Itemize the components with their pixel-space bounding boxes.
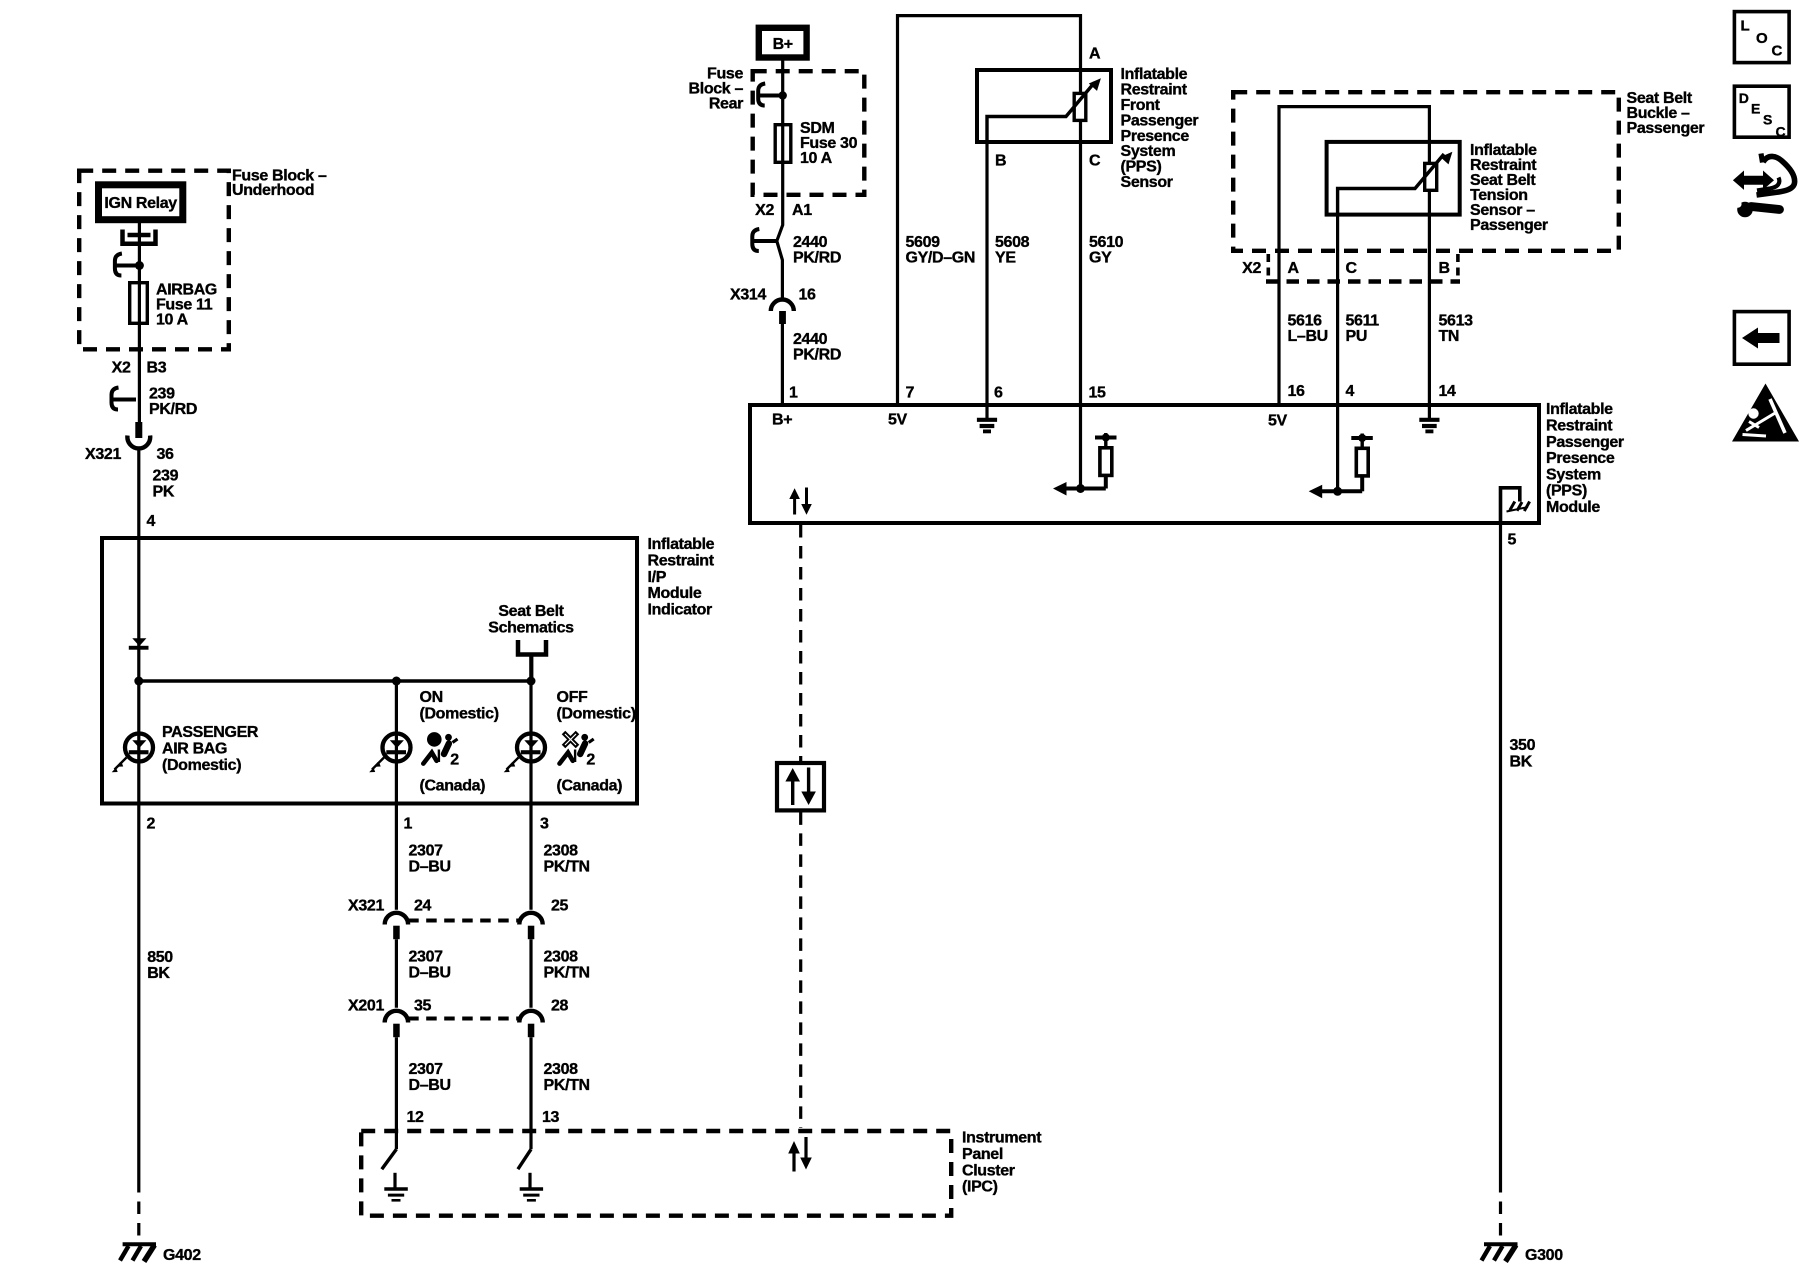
wire 2307 D-BU from pin 1 xyxy=(395,805,398,910)
svg-text:2440: 2440 xyxy=(793,331,828,348)
label (Canada) under OFF xyxy=(557,777,623,794)
terminal hook at X2 B3 xyxy=(112,388,137,410)
switch to ground (pin 12) xyxy=(382,1149,397,1169)
svg-text:C: C xyxy=(1089,152,1101,169)
label Fuse Block - Underhood xyxy=(232,168,327,200)
svg-text:Seat Belt: Seat Belt xyxy=(498,603,564,620)
label Instrument Panel Cluster (IPC) xyxy=(962,1130,1042,1196)
fuse F11 AIRBAG Fuse 11 10 A xyxy=(130,282,217,329)
troubleshooting icon (arrows and wrench) xyxy=(1733,154,1795,218)
diode on lamp feed xyxy=(129,638,149,649)
labels X314 16 xyxy=(730,287,816,304)
svg-text:PK/RD: PK/RD xyxy=(793,347,841,364)
PPS sensor wiper arm xyxy=(987,78,1101,143)
label A xyxy=(1089,46,1101,63)
svg-text:Passenger: Passenger xyxy=(1627,120,1705,137)
connector X201 pin 35 symbol xyxy=(385,1011,408,1037)
svg-text:2308: 2308 xyxy=(544,1061,579,1078)
svg-text:IGN Relay: IGN Relay xyxy=(104,195,177,212)
label Inflatable Restraint Passenger Presence System (PPS) Module xyxy=(1546,401,1624,516)
variable resistor in tension sensor xyxy=(1425,163,1437,190)
connector X314 pin 16 symbol xyxy=(771,300,794,325)
svg-text:6: 6 xyxy=(994,385,1003,402)
ground inside IPC (left) xyxy=(384,1173,408,1201)
svg-text:Indicator: Indicator xyxy=(648,601,713,618)
wire B through tension sensor (5613) xyxy=(1428,142,1431,405)
svg-text:28: 28 xyxy=(551,998,569,1015)
svg-text:PK/TN: PK/TN xyxy=(544,965,590,982)
module pin labels 7 6 15 xyxy=(906,385,1107,402)
label Fuse Block - Rear xyxy=(689,66,744,113)
connector X321 pin 36 labels xyxy=(85,446,174,463)
back arrow box xyxy=(1734,312,1789,365)
svg-text:2: 2 xyxy=(147,816,156,833)
wire 350 BK to G300 xyxy=(1499,523,1502,1243)
svg-text:(IPC): (IPC) xyxy=(962,1179,998,1196)
switch to ground (pin 13) xyxy=(518,1149,531,1169)
svg-text:14: 14 xyxy=(1439,383,1457,400)
svg-text:5611: 5611 xyxy=(1346,313,1380,330)
wire 239 PK label xyxy=(153,468,179,501)
svg-text:Panel: Panel xyxy=(962,1146,1003,1163)
svg-text:L: L xyxy=(1741,17,1750,34)
svg-text:X321: X321 xyxy=(85,446,121,463)
ground symbol at pin 6 xyxy=(977,405,997,431)
pin 4 sense resistor to 5V xyxy=(1309,405,1373,498)
svg-text:5609: 5609 xyxy=(906,234,941,251)
svg-text:B+: B+ xyxy=(772,412,792,429)
svg-text:D–BU: D–BU xyxy=(409,965,451,982)
svg-text:13: 13 xyxy=(542,1109,560,1126)
svg-text:G300: G300 xyxy=(1525,1247,1563,1264)
svg-text:2: 2 xyxy=(450,752,459,769)
module internal labels B+ 5V 5V xyxy=(772,412,1288,430)
connector X321 pin 24 symbol xyxy=(385,913,408,939)
ground inside IPC (right) xyxy=(520,1173,543,1201)
svg-text:5: 5 xyxy=(1508,532,1517,549)
serial data dashed wire to IPC xyxy=(799,812,802,1128)
label 850 BK xyxy=(147,949,173,982)
labels B C xyxy=(995,152,1101,169)
svg-text:YE: YE xyxy=(995,250,1016,267)
svg-text:PK: PK xyxy=(153,484,175,501)
label (Canada) under ON xyxy=(420,777,486,794)
svg-text:BK: BK xyxy=(1510,754,1533,771)
wire C through PPS sensor (5610) xyxy=(1079,70,1082,405)
svg-text:BK: BK xyxy=(147,965,170,982)
svg-text:25: 25 xyxy=(551,898,569,915)
B+ feed box xyxy=(759,28,807,58)
wire 850 BK to G402 xyxy=(137,805,140,1243)
svg-text:A: A xyxy=(1288,260,1300,277)
svg-text:(Domestic): (Domestic) xyxy=(162,757,241,774)
svg-text:2307: 2307 xyxy=(409,1061,444,1078)
wire 2308 PK/TN lower segment xyxy=(529,1037,532,1149)
svg-text:4: 4 xyxy=(1346,383,1355,400)
fuse F30 SDM Fuse 30 10 A xyxy=(775,120,857,167)
svg-text:5613: 5613 xyxy=(1439,313,1474,330)
svg-text:B+: B+ xyxy=(773,36,793,53)
svg-text:5610: 5610 xyxy=(1089,234,1124,251)
svg-text:C: C xyxy=(1772,43,1783,60)
svg-text:X2: X2 xyxy=(755,202,774,219)
terminal hook at X2 A1 xyxy=(752,229,777,251)
svg-text:850: 850 xyxy=(147,949,173,966)
tension sensor loop wire A (5616) xyxy=(1279,107,1429,405)
svg-text:7: 7 xyxy=(906,385,915,402)
dashed harness tie X321 xyxy=(408,919,519,923)
label 2440 PK/RD (upper) xyxy=(793,234,841,267)
svg-text:5608: 5608 xyxy=(995,234,1030,251)
svg-text:C: C xyxy=(1776,124,1786,140)
svg-text:24: 24 xyxy=(414,898,432,915)
svg-text:TN: TN xyxy=(1439,328,1460,345)
DESC reference box xyxy=(1734,86,1789,139)
svg-text:239: 239 xyxy=(153,468,179,485)
label 2308 PK/TN (middle) xyxy=(544,949,590,982)
svg-text:5616: 5616 xyxy=(1288,313,1323,330)
svg-text:2307: 2307 xyxy=(409,949,444,966)
svg-text:350: 350 xyxy=(1510,737,1536,754)
serial data arrows inside IPC xyxy=(788,1137,812,1172)
seat belt buckle dashed box xyxy=(1233,92,1619,251)
svg-text:16: 16 xyxy=(1288,383,1306,400)
svg-text:X201: X201 xyxy=(348,998,384,1015)
svg-text:12: 12 xyxy=(407,1109,425,1126)
svg-text:A: A xyxy=(1089,46,1101,63)
pin labels 2 1 3 xyxy=(147,816,550,833)
svg-text:1: 1 xyxy=(789,385,798,402)
svg-text:X2: X2 xyxy=(1242,260,1261,277)
svg-text:(Canada): (Canada) xyxy=(420,777,486,794)
ground symbol at pin 14 xyxy=(1419,405,1439,431)
label 2307 D-BU (middle) xyxy=(409,949,451,982)
svg-text:S: S xyxy=(1763,112,1772,128)
wire into I/P module xyxy=(137,449,140,682)
svg-text:X2: X2 xyxy=(112,360,131,377)
instrument panel cluster dashed box xyxy=(361,1131,951,1216)
svg-text:Underhood: Underhood xyxy=(232,182,314,199)
svg-text:Passenger: Passenger xyxy=(1546,434,1624,451)
svg-text:2440: 2440 xyxy=(793,234,828,251)
svg-text:2308: 2308 xyxy=(544,843,579,860)
label Seat Belt Schematics xyxy=(488,603,574,637)
svg-text:PU: PU xyxy=(1346,328,1368,345)
svg-text:3: 3 xyxy=(540,816,549,833)
module pin labels 16 4 14 xyxy=(1288,383,1457,400)
bus wire inside module xyxy=(139,679,531,683)
wire 2308 PK/TN middle segment xyxy=(529,939,532,1008)
svg-text:Restraint: Restraint xyxy=(1546,418,1613,435)
label Inflatable Restraint Front Passenger Presence System (PPS) Sensor xyxy=(1121,66,1199,191)
svg-text:B3: B3 xyxy=(147,360,167,377)
sensor loop wire A (5609) xyxy=(898,16,1081,405)
svg-text:Module: Module xyxy=(1546,499,1600,516)
serial data dashed wire from module xyxy=(799,525,802,761)
svg-text:GY: GY xyxy=(1089,250,1112,267)
serial data interface box xyxy=(777,763,824,810)
svg-text:239: 239 xyxy=(149,386,175,403)
labels X2 A C B xyxy=(1242,260,1450,277)
label 2308 PK/TN (lower) xyxy=(544,1061,590,1094)
svg-text:C: C xyxy=(1346,260,1358,277)
svg-text:ON: ON xyxy=(420,689,443,706)
svg-text:(Canada): (Canada) xyxy=(557,777,623,794)
svg-text:Rear: Rear xyxy=(709,96,743,113)
labels X201 35 28 xyxy=(348,998,569,1015)
svg-text:Schematics: Schematics xyxy=(488,620,574,637)
pin 15 sense resistor to 5V xyxy=(1053,405,1117,496)
airbag warning triangle xyxy=(1732,384,1799,442)
svg-text:(PPS): (PPS) xyxy=(1546,483,1587,500)
wire labels 5616 L-BU 5611 PU 5613 TN xyxy=(1288,313,1474,346)
svg-text:5V: 5V xyxy=(888,412,908,429)
svg-text:PK/TN: PK/TN xyxy=(544,859,590,876)
svg-text:(Domestic): (Domestic) xyxy=(420,705,499,722)
variable resistor in PPS sensor xyxy=(1074,93,1086,120)
label 350 BK xyxy=(1510,737,1536,771)
svg-text:G402: G402 xyxy=(163,1247,201,1264)
svg-text:O: O xyxy=(1756,30,1768,47)
svg-text:B: B xyxy=(1439,260,1450,277)
svg-text:Restraint: Restraint xyxy=(648,553,715,570)
lamp PASSENGER AIR BAG indicator xyxy=(112,681,153,805)
ground G300 xyxy=(1482,1244,1564,1264)
label Inflatable Restraint Seat Belt Tension Sensor - Passenger xyxy=(1470,142,1548,234)
LOC reference box xyxy=(1734,12,1789,63)
svg-text:PK/RD: PK/RD xyxy=(149,401,197,418)
junction node dots on bus xyxy=(134,677,535,686)
connector X321 pin 25 symbol xyxy=(519,913,542,939)
label Inflatable Restraint I/P Module Indicator xyxy=(648,536,715,618)
fuse block rear dashed box xyxy=(753,71,865,195)
svg-text:Presence: Presence xyxy=(1546,450,1615,467)
svg-text:10 A: 10 A xyxy=(156,312,189,329)
lamp OFF indicator xyxy=(504,681,545,805)
wire labels 5609 GY/D-GN 5608 YE 5610 GY xyxy=(906,234,1124,267)
svg-text:System: System xyxy=(1546,466,1601,483)
connector X2 pin A1 labels xyxy=(755,202,812,219)
svg-text:1: 1 xyxy=(404,816,413,833)
svg-text:B: B xyxy=(995,152,1006,169)
dashed harness tie X201 xyxy=(408,1017,519,1021)
wire 2307 D-BU middle segment xyxy=(395,939,398,1008)
label 2307 D-BU (lower) xyxy=(409,1061,451,1094)
ground G402 xyxy=(120,1244,201,1264)
svg-text:X321: X321 xyxy=(348,898,384,915)
wire from IGN relay through fuse xyxy=(138,223,141,423)
wire B+ to SDM fuse xyxy=(777,58,783,299)
relay K (IGN Relay) label box xyxy=(99,185,183,220)
svg-text:Cluster: Cluster xyxy=(962,1162,1015,1179)
svg-text:Inflatable: Inflatable xyxy=(648,536,715,553)
tension sensor wiper arm xyxy=(1338,152,1453,214)
svg-text:35: 35 xyxy=(414,998,432,1015)
pin labels 12 13 xyxy=(407,1109,560,1126)
svg-text:PK/TN: PK/TN xyxy=(544,1077,590,1094)
serial data arrows inside module xyxy=(789,488,812,515)
pin 5 label xyxy=(1508,532,1517,549)
svg-text:D–BU: D–BU xyxy=(409,1077,451,1094)
svg-text:(Domestic): (Domestic) xyxy=(557,705,636,722)
relay contact symbol xyxy=(123,230,156,244)
wire 239 PK/RD label xyxy=(149,386,197,419)
svg-text:2: 2 xyxy=(586,752,595,769)
airbag person icon OFF (crossed out) xyxy=(560,733,596,769)
wire C from tension sensor (5611) xyxy=(1336,214,1339,405)
svg-text:Instrument: Instrument xyxy=(962,1130,1042,1147)
label PASSENGER AIR BAG (Domestic) xyxy=(162,724,259,774)
wire 2307 D-BU lower segment xyxy=(395,1037,398,1149)
label 2308 PK/TN (upper) xyxy=(544,843,590,876)
svg-text:I/P: I/P xyxy=(648,569,667,586)
svg-text:AIR BAG: AIR BAG xyxy=(162,740,227,757)
seat belt tension sensor box xyxy=(1327,142,1460,215)
svg-text:16: 16 xyxy=(799,287,817,304)
label OFF (Domestic) xyxy=(557,689,636,723)
internal ground at pin 5 xyxy=(1501,488,1530,523)
connector X201 pin 28 symbol xyxy=(519,1011,542,1037)
svg-text:Module: Module xyxy=(648,585,702,602)
terminal hook at relay output xyxy=(115,254,144,276)
wire 2308 PK/TN from pin 3 xyxy=(529,805,532,910)
seat belt schematics off-page bracket xyxy=(518,640,546,681)
wire 2440 PK/RD to module xyxy=(781,324,784,405)
svg-text:PASSENGER: PASSENGER xyxy=(162,724,259,741)
fuse block underhood dashed box xyxy=(79,171,229,350)
label ON (Domestic) xyxy=(420,689,499,723)
pin 4 label xyxy=(147,513,156,530)
pin 1 label at module xyxy=(789,385,798,402)
front PPS sensor box xyxy=(977,70,1111,142)
svg-text:D: D xyxy=(1739,90,1749,106)
label Seat Belt Buckle - Passenger xyxy=(1627,90,1705,137)
connector X2 row dashed outline xyxy=(1266,254,1460,283)
lamp ON indicator xyxy=(369,681,410,805)
svg-text:E: E xyxy=(1751,101,1760,117)
svg-text:36: 36 xyxy=(157,446,175,463)
terminal hook below B+ xyxy=(758,84,787,106)
label 2307 D-BU (upper) xyxy=(409,843,451,876)
airbag person icon ON xyxy=(423,732,459,768)
svg-text:4: 4 xyxy=(147,513,156,530)
svg-text:X314: X314 xyxy=(730,287,766,304)
connector X321 pin 36 symbol xyxy=(127,422,150,448)
svg-text:15: 15 xyxy=(1089,385,1107,402)
svg-text:Sensor: Sensor xyxy=(1121,174,1173,191)
svg-text:2308: 2308 xyxy=(544,949,579,966)
svg-text:D–BU: D–BU xyxy=(409,859,451,876)
svg-text:10 A: 10 A xyxy=(800,150,833,167)
svg-text:GY/D–GN: GY/D–GN xyxy=(906,250,976,267)
labels X321 24 25 xyxy=(348,898,569,915)
svg-text:5V: 5V xyxy=(1268,413,1288,430)
connector X2 pin B3 labels xyxy=(112,360,167,377)
svg-text:L–BU: L–BU xyxy=(1288,328,1328,345)
wire B from PPS sensor (5608) xyxy=(985,143,988,405)
PPS module box xyxy=(750,405,1539,523)
svg-text:A1: A1 xyxy=(792,202,812,219)
svg-text:Inflatable: Inflatable xyxy=(1546,401,1613,418)
svg-text:2307: 2307 xyxy=(409,843,444,860)
svg-text:OFF: OFF xyxy=(557,689,589,706)
label 2440 PK/RD (lower) xyxy=(793,331,841,364)
I/P module indicator box xyxy=(102,538,637,804)
svg-text:Passenger: Passenger xyxy=(1470,217,1548,234)
svg-text:PK/RD: PK/RD xyxy=(793,250,841,267)
